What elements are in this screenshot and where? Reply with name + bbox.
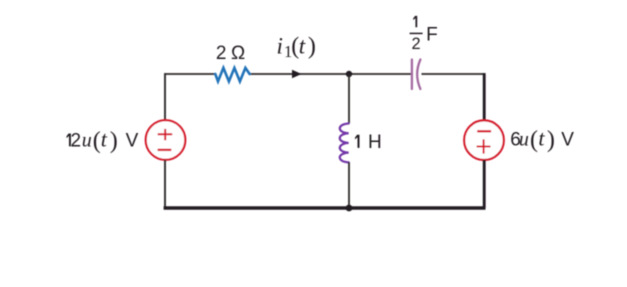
voltage source V1 plus sign (158, 129, 173, 140)
svg-text:u: u (519, 129, 529, 151)
svg-text:F: F (426, 24, 438, 45)
wire: top node to capacitor (349, 73, 411, 75)
wire: bottom (thick) (164, 206, 486, 210)
voltage source V1 circle (146, 120, 186, 160)
svg-text:t: t (101, 126, 108, 151)
svg-text:u: u (82, 129, 92, 151)
wire: capacitor to top-right corner (422, 73, 485, 75)
svg-text:2: 2 (71, 130, 82, 151)
svg-text:): ) (308, 33, 316, 59)
svg-text:2: 2 (216, 43, 227, 64)
svg-text:V: V (126, 130, 139, 151)
node: top junction dot (346, 71, 352, 77)
voltage source V2 circle (464, 120, 504, 160)
svg-text:): ) (547, 127, 555, 153)
wire: right branch lower (source to bottom wire) (483, 160, 486, 208)
wire: right branch upper (top-right corner to source) (483, 73, 486, 120)
capacitor C 1/2F: curved plate (417, 60, 420, 90)
wire: middle branch upper (node to inductor) (348, 74, 350, 124)
label: 6u(t) V (510, 126, 574, 153)
label: i1(t) (277, 33, 316, 61)
wire: resistor to top node (with current arrow) (250, 73, 349, 75)
label: 12u(t) V (67, 126, 139, 154)
label: capacitor value fraction 1/2 F (413, 16, 417, 27)
svg-text:V: V (561, 130, 574, 151)
inductor L 1H (purple coil) (340, 124, 349, 163)
svg-text:2: 2 (412, 35, 421, 53)
node: bottom junction dot (346, 205, 353, 212)
voltage source V1 minus sign (158, 149, 172, 151)
svg-text:): ) (110, 128, 118, 154)
resistor R 2ohm (blue zigzag) (215, 68, 249, 82)
fraction bar (410, 32, 423, 34)
current arrow i1(t) on top wire (292, 70, 302, 79)
svg-text:t: t (538, 126, 545, 151)
wire: left branch upper (top wire to source) (164, 73, 166, 120)
label: 1 H (355, 132, 382, 153)
svg-text:i: i (277, 33, 283, 58)
wire: left branch lower (source to bottom wire) (164, 160, 166, 208)
svg-text:H: H (368, 132, 382, 153)
label: 2 ohm (216, 43, 245, 64)
svg-text:Ω: Ω (231, 43, 245, 64)
wire: middle branch lower (inductor to bottom wire) (348, 162, 350, 208)
voltage source V2 plus sign (477, 139, 491, 153)
capacitor C 1/2F: straight plate (411, 60, 413, 90)
svg-text:(: ( (530, 127, 538, 153)
svg-text:t: t (299, 33, 306, 58)
wire: top-left segment from left branch to resistor (165, 73, 216, 75)
voltage source V2 minus sign (477, 130, 491, 132)
svg-text:(: ( (93, 128, 101, 154)
